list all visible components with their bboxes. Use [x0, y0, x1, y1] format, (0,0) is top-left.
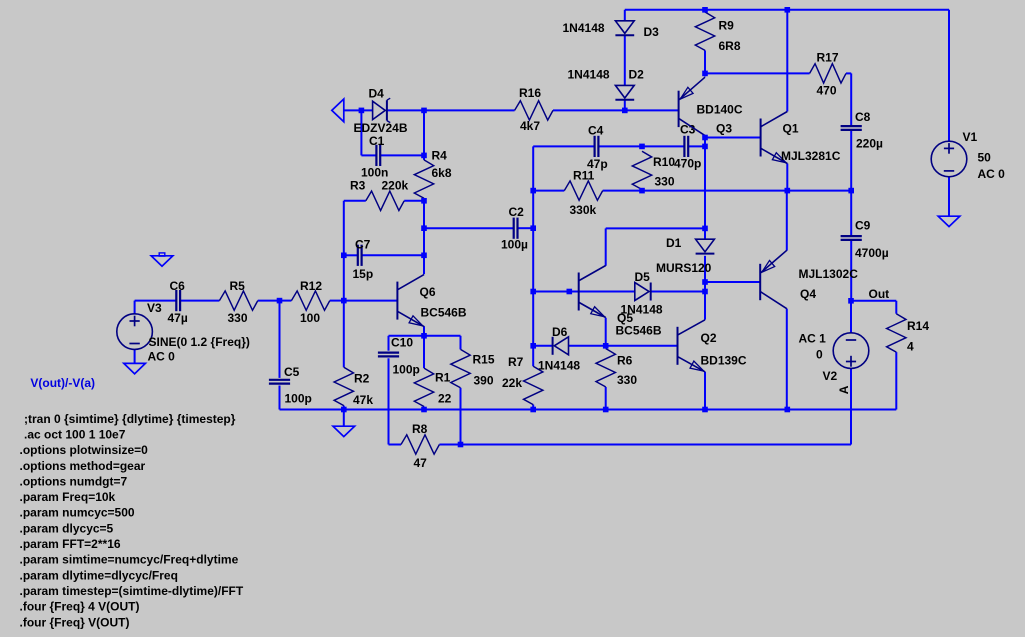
junction zener C1 tap [359, 108, 365, 114]
svg-text:BC546B: BC546B [421, 306, 467, 320]
label Q6 [420, 285, 436, 299]
svg-text:MJL3281C: MJL3281C [781, 149, 841, 163]
wire feedback column [532, 191, 534, 367]
wire C3 right [688, 145, 705, 147]
svg-text:EDZV24B: EDZV24B [354, 121, 408, 135]
junction Q5 base column [530, 289, 536, 295]
value 15p [353, 267, 374, 281]
capacitor C3 [684, 136, 688, 157]
svg-text:R2: R2 [354, 372, 370, 386]
junction D1 top [702, 226, 708, 232]
svg-text:V3: V3 [147, 301, 162, 315]
wire C1 left [361, 154, 376, 156]
value BD140C [697, 103, 743, 117]
wire R10 bottom lead [641, 190, 643, 191]
diode D5 [635, 283, 651, 301]
svg-text:.options method=gear: .options method=gear [20, 459, 146, 473]
value 330k [570, 203, 597, 217]
junction C3 node [702, 144, 708, 150]
svg-text:;tran 0 {simtime} {dlytime} {t: ;tran 0 {simtime} {dlytime} {timestep} [24, 412, 236, 426]
directive line 3 [20, 443, 149, 457]
junction R10 bottom [639, 188, 645, 194]
wire Q4 base row [705, 281, 760, 283]
wire C5 branch [279, 301, 281, 378]
transistor Q2 [678, 320, 706, 372]
label C5 [284, 365, 300, 379]
wire V1 top drop [948, 10, 950, 142]
wire R17 corner [846, 73, 851, 125]
value 1N4148 for D5 [621, 303, 663, 317]
directive line 8 [20, 521, 114, 535]
wire V3 bottom [134, 349, 136, 363]
wire C7 left [344, 254, 358, 256]
label Q4 [800, 287, 816, 301]
label C2 [509, 205, 525, 219]
directive line 2 [24, 427, 126, 441]
label D6 [552, 325, 568, 339]
capacitor C9 [841, 236, 862, 240]
wire node A horizontal [439, 444, 851, 446]
svg-text:D1: D1 [666, 236, 682, 250]
junction output rail left [530, 188, 536, 194]
svg-text:470: 470 [817, 84, 837, 98]
resistor R10 [632, 151, 651, 189]
junction D1 bottom [702, 279, 708, 285]
value MURS120 [656, 261, 712, 275]
input port arrow flag [332, 99, 344, 122]
wire Q4 emitter riser [786, 191, 788, 251]
svg-text:SINE(0 1.2 {Freq}): SINE(0 1.2 {Freq}) [149, 335, 250, 349]
diode D2 [615, 85, 634, 99]
directive line 5 [20, 474, 128, 488]
wire R1 top [423, 336, 425, 368]
value EDZV24B [354, 121, 408, 135]
junction D5 node [702, 289, 708, 295]
label D5 [635, 270, 651, 284]
svg-text:Q2: Q2 [701, 331, 717, 345]
value 0 for V2 [816, 348, 823, 362]
svg-text:.param simtime=numcyc/Freq+dly: .param simtime=numcyc/Freq+dlytime [20, 553, 239, 567]
label R15 [473, 353, 495, 367]
value AC 0 for V1 [978, 167, 1006, 181]
svg-text:BD140C: BD140C [697, 103, 743, 117]
value 470 for R17 [817, 84, 837, 98]
value 50 [978, 151, 992, 165]
svg-text:D5: D5 [635, 270, 651, 284]
svg-text:C7: C7 [355, 238, 371, 252]
wire junction to R12 [280, 300, 292, 302]
voltage source V3 [117, 314, 153, 350]
svg-text:100: 100 [300, 311, 320, 325]
label Q2 [701, 331, 717, 345]
value 1N4148 for D3 [563, 21, 605, 35]
junction R7 ground [530, 407, 536, 413]
wire Q1 emitter drop [786, 164, 788, 191]
value 100u for C2 [501, 238, 528, 252]
label C3 [680, 123, 696, 137]
svg-text:D3: D3 [644, 25, 660, 39]
value 4 [907, 340, 914, 354]
wire C7 right [362, 254, 424, 256]
svg-text:D2: D2 [629, 68, 645, 82]
wire D5 to node [651, 291, 705, 293]
resistor R2 [334, 367, 353, 405]
resistor R9 [695, 12, 714, 50]
label R10 [653, 155, 675, 169]
label D3 [644, 25, 660, 39]
transistor Q5 [579, 266, 606, 318]
value 330 for R6 [617, 373, 637, 387]
junction Out [848, 298, 854, 304]
wire R5 to junction [258, 300, 280, 302]
wire D2 cathode lead [624, 99, 626, 110]
wire C4 right [598, 145, 642, 147]
floating ground flag [151, 253, 173, 266]
junction R3 R4 [421, 198, 427, 204]
junction C8 C9 [848, 188, 854, 194]
wire C9 bottom [850, 241, 852, 301]
svg-text:.param FFT=2**16: .param FFT=2**16 [20, 537, 121, 551]
wire C4 branch vertical [532, 146, 534, 190]
label R5 [230, 279, 246, 293]
value 470p for C3 [674, 157, 701, 171]
value AC 0 for V3 [148, 350, 176, 364]
value 4k7 [520, 119, 540, 133]
wire to Q6 base [344, 300, 398, 302]
svg-text:AC 1: AC 1 [799, 332, 827, 346]
ground below R2 [333, 426, 355, 436]
junction Q1 Q4 emitters [785, 188, 791, 194]
capacitor C4 [595, 136, 599, 157]
svg-text:C9: C9 [855, 219, 871, 233]
wire R4 top [423, 110, 425, 159]
wire Q2 emitter drop [704, 372, 706, 410]
svg-text:R5: R5 [230, 279, 246, 293]
svg-text:V(out)/-V(a): V(out)/-V(a) [30, 376, 95, 390]
svg-text:.options plotwinsize=0: .options plotwinsize=0 [20, 443, 149, 457]
resistor R3 [366, 191, 404, 210]
wire to C10 top [389, 336, 425, 351]
label R14 [907, 319, 929, 333]
value 47 [414, 456, 428, 470]
capacitor C6 [176, 290, 180, 311]
svg-text:R15: R15 [473, 353, 495, 367]
wire to R15 top [424, 336, 461, 350]
directive line 14 [20, 615, 130, 629]
wire R3 right lead [404, 200, 424, 202]
wire C1 branch down [360, 110, 362, 155]
wire output rail right [603, 190, 851, 192]
wire D3 anode lead [624, 10, 626, 21]
wire R15 bottom [460, 388, 462, 445]
capacitor C8 [841, 126, 862, 130]
label C8 [855, 110, 871, 124]
ground below V1 [938, 216, 960, 226]
wire ground rail [280, 409, 897, 411]
svg-text:47: 47 [414, 456, 428, 470]
value BC546B for Q5 [616, 324, 662, 338]
value SINE [149, 335, 250, 349]
value 100p for C5 [285, 392, 312, 406]
label R17 [817, 51, 839, 65]
value 100n [361, 166, 388, 180]
svg-text:C4: C4 [588, 124, 604, 138]
wire zener row mid [386, 109, 515, 111]
label C6 [170, 279, 186, 293]
junction D2 node [622, 108, 628, 114]
wire Q3 collector column [704, 136, 706, 229]
wire Q1 collector riser [786, 10, 788, 112]
label Q5 [617, 311, 633, 325]
junction Q6 emitter [421, 333, 427, 339]
value 47k [353, 393, 373, 407]
resistor R12 [291, 291, 329, 310]
junction C7 left [341, 253, 347, 259]
net expression label [30, 376, 95, 390]
transistor Q6 [397, 275, 424, 327]
ground below V3 [124, 363, 146, 373]
svg-text:BC546B: BC546B [616, 324, 662, 338]
value 47p [587, 157, 608, 171]
svg-text:AC 0: AC 0 [978, 167, 1006, 181]
wire C5 bottom [279, 386, 281, 410]
junction R6 ground [603, 407, 609, 413]
label V1 [963, 130, 978, 144]
junction Q4 collector ground [785, 407, 791, 413]
wire C8 bottom [850, 131, 852, 191]
directive line 10 [20, 553, 239, 567]
wire R6 bottom [605, 387, 607, 410]
wire Q4 collector drop [786, 309, 788, 410]
svg-text:C10: C10 [391, 336, 413, 350]
svg-text:.param dlytime=dlycyc/Freq: .param dlytime=dlycyc/Freq [20, 568, 178, 582]
wire VAS row [705, 72, 810, 74]
capacitor C10 [378, 353, 399, 357]
capacitor C2 [514, 218, 518, 239]
junction R9 VAS node [702, 71, 708, 77]
svg-text:AC 0: AC 0 [148, 350, 176, 364]
junction C5 tap [277, 298, 283, 304]
svg-text:47p: 47p [587, 157, 608, 171]
wire Q6 emitter node [423, 326, 425, 336]
svg-text:BD139C: BD139C [701, 354, 747, 368]
wire R3 left lead [344, 200, 366, 202]
svg-text:470p: 470p [674, 157, 701, 171]
junction C2 left [421, 225, 427, 231]
wire D6 left [533, 345, 552, 347]
value 220k [382, 179, 409, 193]
directive line 13 [20, 600, 140, 614]
svg-text:D4: D4 [369, 87, 385, 101]
wire V3 stem [134, 301, 136, 314]
svg-text:100n: 100n [361, 166, 388, 180]
value BD139C [701, 354, 747, 368]
svg-text:6R8: 6R8 [719, 39, 741, 53]
directive line 11 [20, 568, 178, 582]
svg-text:C2: C2 [509, 205, 525, 219]
label C10 [391, 336, 413, 350]
label D4 [369, 87, 385, 101]
directive line 7 [20, 506, 135, 520]
svg-text:Q6: Q6 [420, 285, 436, 299]
svg-text:330: 330 [228, 311, 248, 325]
wire C1 right [380, 154, 424, 156]
wire R6 top [605, 346, 607, 349]
wire ground stub below R2 [343, 410, 345, 427]
wire C4 left [533, 145, 594, 147]
svg-text:.param Freq=10k: .param Freq=10k [20, 490, 116, 504]
svg-text:R17: R17 [817, 51, 839, 65]
label R11 [573, 169, 595, 183]
label R3 [350, 179, 366, 193]
resistor R6 [596, 349, 615, 387]
value 47u [168, 311, 188, 325]
capacitor C1 [376, 145, 380, 166]
junction Q2 emitter ground [702, 407, 708, 413]
capacitor C5 [269, 380, 290, 384]
wire Q1 base [705, 137, 761, 139]
label Q1 [783, 122, 799, 136]
svg-text:330: 330 [617, 373, 637, 387]
value 220u [856, 137, 883, 151]
junction C1 R4 [421, 153, 427, 159]
svg-text:4k7: 4k7 [520, 119, 540, 133]
svg-text:C8: C8 [855, 110, 871, 124]
svg-text:.ac oct 100 1 10e7: .ac oct 100 1 10e7 [24, 427, 126, 441]
svg-text:MURS120: MURS120 [656, 261, 712, 275]
voltage source V1 [931, 141, 967, 177]
resistor R7 [524, 366, 543, 404]
svg-text:R16: R16 [519, 86, 541, 100]
junction Q5 base pin [567, 289, 573, 295]
value 390 [474, 374, 494, 388]
directive line 4 [20, 459, 146, 473]
zener diode D4 [373, 98, 391, 122]
wire V1 bottom to ground [948, 177, 950, 217]
svg-text:6k8: 6k8 [432, 166, 452, 180]
value 330 for R10 [655, 175, 675, 189]
diode D3 [615, 21, 634, 35]
wire to Q2 base [606, 345, 678, 347]
label R2 [354, 372, 370, 386]
wire top supply rail [625, 9, 949, 11]
label R4 [432, 149, 448, 163]
wire D6 to junction [569, 345, 606, 347]
wire D3-D2 link [624, 36, 626, 86]
resistor R15 [451, 349, 470, 387]
svg-text:0: 0 [816, 348, 823, 362]
junction Q3 collector [702, 135, 708, 141]
resistor R16 [515, 101, 553, 120]
label C1 [369, 134, 385, 148]
wire Q5 base row [533, 291, 635, 293]
value 1N4148 for D2 [568, 68, 610, 82]
wire C2 left [424, 227, 514, 229]
svg-text:R12: R12 [300, 279, 322, 293]
svg-text:A: A [837, 385, 851, 394]
label R1 [435, 371, 451, 385]
label V2 [823, 369, 838, 383]
wire D1 top lead [704, 228, 706, 239]
directive line 6 [20, 490, 116, 504]
wire C6 to R5 [180, 300, 219, 302]
junction top rail R9 [702, 7, 708, 13]
svg-text:R3: R3 [350, 179, 366, 193]
svg-text:1N4148: 1N4148 [621, 303, 663, 317]
junction node A R15 [458, 442, 464, 448]
resistor R14 [887, 314, 906, 352]
label D1 [666, 236, 682, 250]
wire R3 left vertical [343, 201, 345, 301]
label R6 [617, 354, 633, 368]
resistor R4 [414, 160, 433, 198]
wire C2 right [518, 227, 534, 229]
svg-text:R14: R14 [907, 319, 929, 333]
label R16 [519, 86, 541, 100]
value 100 for R12 [300, 311, 320, 325]
svg-text:Q1: Q1 [783, 122, 799, 136]
junction R4 top [421, 108, 427, 114]
junction C7 right [421, 253, 427, 259]
wire R2 top [343, 301, 345, 368]
svg-text:Q4: Q4 [800, 287, 816, 301]
wire output rail left [533, 190, 564, 192]
svg-text:V1: V1 [963, 130, 978, 144]
junction R2 ground [341, 407, 347, 413]
resistor R8 [401, 435, 439, 454]
svg-text:50: 50 [978, 151, 992, 165]
wire C10 bottom [388, 358, 390, 444]
resistor R17 [810, 64, 846, 83]
capacitor C7 [358, 245, 362, 266]
svg-text:D6: D6 [552, 325, 568, 339]
svg-text:V2: V2 [823, 369, 838, 383]
transistor Q1 [761, 112, 788, 164]
transistor Q4 [760, 250, 787, 308]
label R9 [719, 19, 735, 33]
svg-text:47µ: 47µ [168, 311, 188, 325]
resistor R5 [219, 291, 257, 310]
voltage source V2 [833, 333, 869, 369]
svg-text:C1: C1 [369, 134, 385, 148]
wire R12 to junction [330, 300, 344, 302]
node Out label [869, 287, 890, 301]
junction D6 left [530, 343, 536, 349]
wire node column to Q2 collector [704, 282, 706, 320]
value AC 1 [799, 332, 827, 346]
svg-text:22: 22 [438, 392, 452, 406]
label V3 [147, 301, 162, 315]
value 100p for C10 [393, 363, 420, 377]
wire R7 bottom [532, 405, 534, 410]
wire zener row left [344, 109, 373, 111]
value 6R8 [719, 39, 741, 53]
value 1N4148 for D6 [538, 359, 580, 373]
svg-text:R8: R8 [412, 422, 428, 436]
value MJL1302C [799, 267, 859, 281]
label C7 [355, 238, 371, 252]
svg-text:.param numcyc=500: .param numcyc=500 [20, 506, 135, 520]
wire Out to R14 [851, 301, 896, 314]
svg-text:R4: R4 [432, 149, 448, 163]
svg-text:1N4148: 1N4148 [568, 68, 610, 82]
value BC546B for Q6 [421, 306, 467, 320]
svg-text:22k: 22k [502, 376, 522, 390]
wire C3 left [642, 145, 684, 147]
wire C9 top [850, 191, 852, 236]
svg-text:1N4148: 1N4148 [538, 359, 580, 373]
svg-text:100p: 100p [393, 363, 420, 377]
